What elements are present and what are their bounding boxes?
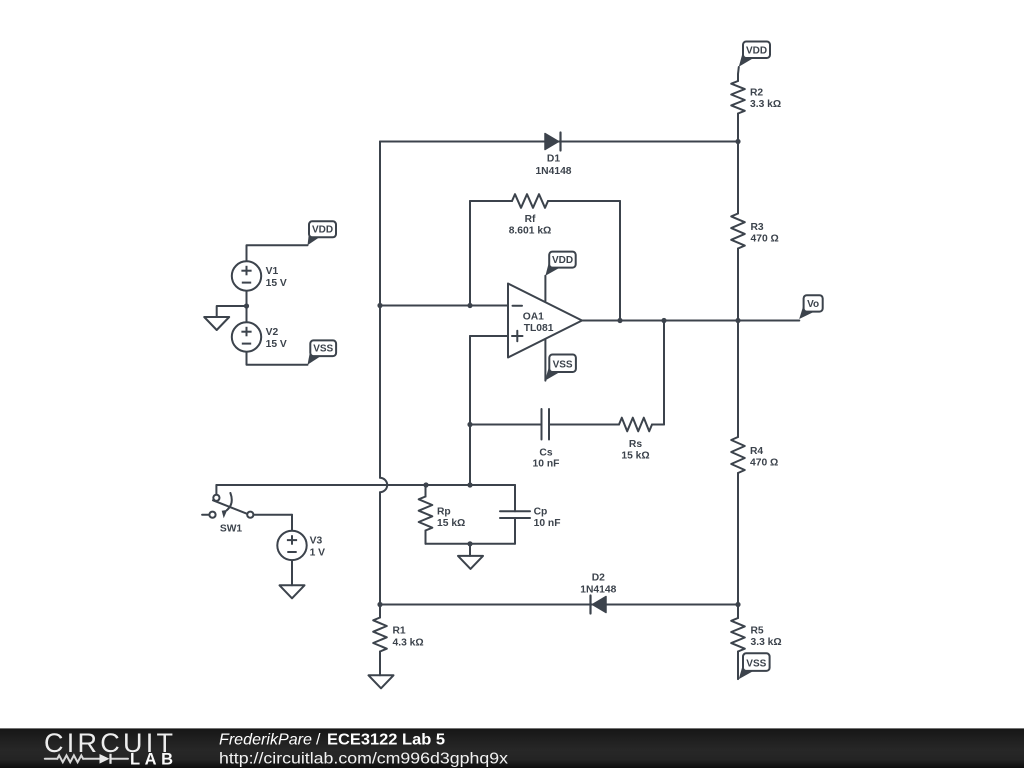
svg-text:R4: R4 — [750, 446, 763, 457]
svg-text:Vo: Vo — [807, 299, 819, 310]
svg-text:SW1: SW1 — [220, 524, 243, 535]
svg-text:Rs: Rs — [629, 439, 642, 450]
svg-text:1 V: 1 V — [310, 547, 326, 558]
svg-text:http://circuitlab.com/cm996d3g: http://circuitlab.com/cm996d3gphq9x — [219, 751, 508, 768]
svg-text:ECE3122 Lab 5: ECE3122 Lab 5 — [327, 731, 445, 748]
svg-text:VDD: VDD — [312, 225, 333, 236]
svg-text:VSS: VSS — [313, 344, 333, 355]
svg-text:FrederikPare: FrederikPare — [219, 731, 312, 748]
svg-text:10 nF: 10 nF — [533, 459, 560, 470]
svg-text:OA1: OA1 — [523, 312, 544, 323]
svg-text:1N4148: 1N4148 — [535, 166, 571, 177]
svg-text:Rp: Rp — [437, 506, 451, 517]
svg-text:15 V: 15 V — [266, 278, 287, 289]
svg-text:R1: R1 — [393, 626, 406, 637]
svg-text:3.3 kΩ: 3.3 kΩ — [750, 99, 781, 110]
svg-text:V3: V3 — [310, 536, 323, 547]
svg-text:15 kΩ: 15 kΩ — [621, 450, 649, 461]
svg-text:VSS: VSS — [553, 359, 573, 370]
svg-text:V1: V1 — [266, 266, 279, 277]
svg-text:470 Ω: 470 Ω — [751, 234, 779, 245]
svg-text:D2: D2 — [592, 573, 605, 584]
svg-text:470 Ω: 470 Ω — [750, 458, 778, 469]
svg-text:1N4148: 1N4148 — [580, 584, 616, 595]
svg-text:D1: D1 — [547, 153, 560, 164]
svg-text:R5: R5 — [751, 626, 764, 637]
svg-text:Cs: Cs — [539, 447, 552, 458]
svg-text:VSS: VSS — [746, 658, 766, 669]
svg-text:R2: R2 — [750, 88, 763, 99]
svg-text:15 V: 15 V — [266, 339, 287, 350]
svg-text:Rf: Rf — [525, 214, 536, 225]
svg-text:LAB: LAB — [130, 751, 173, 768]
svg-text:/: / — [316, 731, 321, 748]
svg-text:R3: R3 — [751, 222, 764, 233]
svg-text:VDD: VDD — [552, 255, 573, 266]
svg-text:10 nF: 10 nF — [534, 518, 561, 529]
svg-text:3.3 kΩ: 3.3 kΩ — [751, 637, 782, 648]
svg-text:8.601 kΩ: 8.601 kΩ — [509, 225, 552, 236]
svg-text:TL081: TL081 — [524, 323, 554, 334]
svg-text:V2: V2 — [266, 327, 279, 338]
svg-text:4.3 kΩ: 4.3 kΩ — [393, 638, 424, 649]
svg-text:VDD: VDD — [746, 45, 767, 56]
svg-text:Cp: Cp — [534, 506, 548, 517]
svg-text:15 kΩ: 15 kΩ — [437, 518, 465, 529]
